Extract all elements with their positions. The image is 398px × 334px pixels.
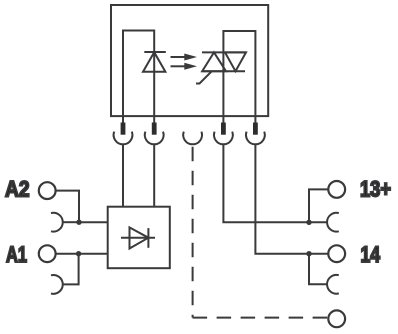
diode V1 (121, 227, 155, 248)
wire 13+ to junction (309, 189, 328, 221)
terminal A1 (39, 245, 56, 262)
svg-text:13+: 13+ (360, 177, 391, 202)
socket A1 (51, 275, 63, 294)
input rectifier module (108, 207, 170, 269)
wire socket5 to 14 junction (255, 144, 309, 254)
wire A1 to rectifier lower (56, 253, 108, 255)
socket 1 (114, 132, 133, 145)
triac V2 (196, 52, 246, 83)
socket 3 (183, 132, 202, 145)
terminal 14 (328, 245, 345, 262)
wire 14 to junction (309, 253, 328, 255)
junction A2 (76, 220, 81, 225)
socket 13+ (327, 213, 339, 232)
wire output branch (pins 4-5 loop) (223, 31, 255, 126)
wire junction down to socket 14 (309, 254, 327, 285)
LED D1 (143, 52, 166, 72)
pin 5 plug (253, 123, 258, 135)
dashed wire socket3 to bottom terminal (192, 147, 194, 318)
socket 5 (246, 132, 265, 145)
wire junction to rectifier upper (79, 221, 108, 223)
junction 13+ (306, 220, 311, 225)
wire socket4 to 13+ junction (223, 144, 309, 222)
svg-text:A1: A1 (6, 242, 27, 267)
terminal ground/aux (328, 310, 345, 327)
junction 14 (306, 251, 311, 256)
terminal 13+ (328, 181, 345, 198)
light arrow 1 (171, 54, 198, 61)
wire junction down to socket A1 (62, 254, 78, 285)
pin 4 plug (221, 123, 226, 135)
terminal A2 (39, 182, 56, 199)
wire input branch (pins 1-2 loop) (123, 31, 154, 127)
wire A2 to junction (56, 191, 79, 222)
socket 4 (214, 132, 233, 145)
wire socket A2 to junction (62, 221, 77, 223)
socket 14 (327, 275, 339, 294)
pin 1 plug (121, 123, 126, 135)
wire socket1 to rectifier (122, 144, 124, 207)
socket 2 (145, 132, 164, 145)
svg-text:14: 14 (361, 242, 381, 267)
wire socket2 to rectifier (153, 144, 155, 207)
wire junction to socket 13+ (309, 221, 327, 223)
junction A1 (76, 251, 81, 256)
svg-text:A2: A2 (5, 177, 30, 202)
optocoupler module outline U1 (111, 5, 268, 116)
light arrow 2 (171, 63, 198, 70)
pin 2 plug (152, 123, 157, 135)
socket A2 (51, 213, 63, 232)
